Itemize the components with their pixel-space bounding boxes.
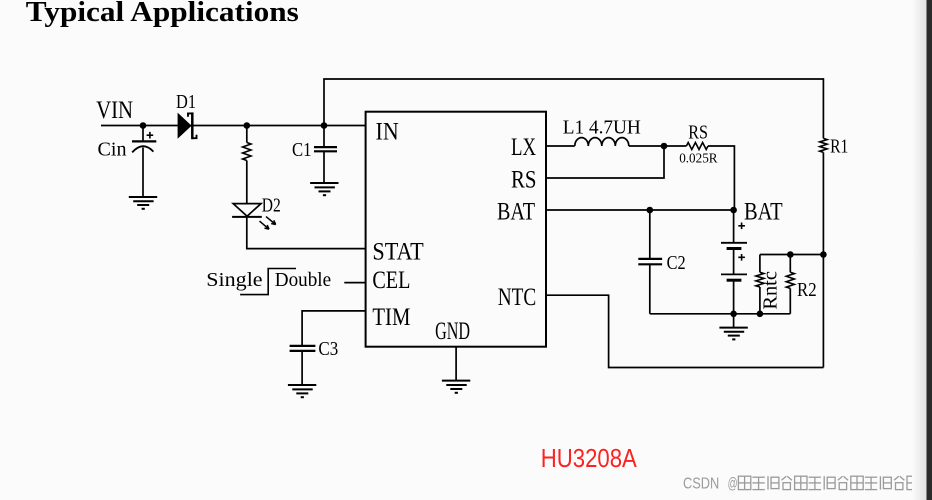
ground (C1) bbox=[310, 183, 338, 195]
junction LX sense bbox=[661, 143, 668, 150]
wire CEL stub bbox=[344, 282, 365, 284]
svg-text:@: @ bbox=[728, 476, 738, 493]
svg-text:CSDN: CSDN bbox=[683, 476, 719, 493]
wire LX out bbox=[546, 145, 575, 147]
capacitor C1 bbox=[314, 126, 337, 183]
svg-text:VIN: VIN bbox=[96, 97, 133, 124]
svg-text:Single: Single bbox=[206, 269, 262, 291]
junction battery tap bbox=[730, 207, 737, 214]
right edge dark strip bbox=[927, 0, 932, 500]
svg-text:TIM: TIM bbox=[372, 304, 410, 331]
ground (GND pin) bbox=[442, 381, 470, 393]
svg-text:C2: C2 bbox=[667, 252, 686, 274]
svg-text:LX: LX bbox=[511, 134, 536, 161]
junction C1 tap bbox=[321, 122, 328, 129]
svg-text:CEL: CEL bbox=[372, 267, 410, 294]
wire battery ground stem bbox=[733, 314, 735, 328]
junction Rntc bottom bbox=[757, 311, 764, 318]
wire D2 branch upper bbox=[246, 126, 248, 143]
svg-text:Rntc: Rntc bbox=[760, 271, 782, 310]
junction right rail bbox=[820, 251, 827, 258]
wire Rntc/R2 top rail bbox=[760, 254, 824, 256]
diode D1 (schottky) bbox=[178, 112, 197, 139]
resistor Rntc bbox=[756, 255, 764, 314]
resistor RS bbox=[686, 143, 708, 150]
battery BT1 bbox=[721, 210, 747, 314]
svg-text:IN: IN bbox=[376, 119, 399, 146]
svg-text:0.025R: 0.025R bbox=[679, 151, 717, 166]
wire BAT rail bbox=[546, 209, 734, 211]
ground (battery) bbox=[719, 328, 747, 340]
svg-text:RS: RS bbox=[511, 167, 537, 194]
svg-text:C3: C3 bbox=[318, 338, 338, 360]
svg-text:Cin: Cin bbox=[98, 139, 127, 161]
svg-text:D2: D2 bbox=[262, 194, 281, 216]
svg-text:D1: D1 bbox=[176, 91, 196, 113]
svg-text:HU3208A: HU3208A bbox=[541, 443, 638, 473]
junction battery bottom bbox=[730, 311, 737, 318]
capacitor Cin bbox=[132, 126, 156, 197]
svg-text:Typical Applications: Typical Applications bbox=[26, 0, 299, 28]
svg-text:R2: R2 bbox=[797, 279, 817, 301]
watermark company glyphs bbox=[738, 476, 919, 489]
svg-text:NTC: NTC bbox=[498, 284, 537, 311]
wire right vertical bbox=[822, 152, 824, 367]
ground (C3) bbox=[288, 385, 316, 397]
wire TIM trace bbox=[302, 311, 366, 346]
wire resistor to LED bbox=[246, 161, 248, 204]
wire RS feedback bbox=[546, 146, 664, 178]
wire LED to STAT bbox=[247, 217, 366, 249]
wire RS to BAT rail bbox=[708, 146, 734, 210]
wire GND stem bbox=[455, 347, 457, 381]
svg-text:RS: RS bbox=[688, 122, 708, 144]
ground (Cin) bbox=[129, 197, 157, 209]
svg-text:BAT: BAT bbox=[744, 199, 783, 226]
svg-text:Double: Double bbox=[275, 269, 331, 291]
svg-text:STAT: STAT bbox=[372, 238, 423, 265]
capacitor C2 bbox=[638, 210, 662, 314]
resistor R1 bbox=[820, 138, 827, 152]
inductor L1 bbox=[575, 138, 629, 146]
op-amp U1 HU3208A IC body bbox=[366, 112, 546, 347]
wire NTC trace bbox=[546, 295, 823, 367]
svg-text:GND: GND bbox=[435, 318, 470, 345]
junction C2 tap bbox=[647, 207, 654, 214]
capacitor C3 bbox=[290, 346, 316, 385]
svg-text:BAT: BAT bbox=[497, 198, 535, 225]
wire L1 to RS bbox=[629, 145, 687, 147]
junction R2 top bbox=[787, 251, 794, 258]
svg-text:L1 4.7UH: L1 4.7UH bbox=[563, 117, 641, 139]
resistor (LED series) bbox=[243, 143, 251, 161]
junction Cin tap bbox=[140, 122, 147, 129]
switch Single/Double select bbox=[240, 269, 296, 295]
wire C1 node up to top rail bbox=[324, 79, 823, 138]
wire bottom rail bbox=[650, 313, 791, 315]
wire main input bbox=[101, 125, 366, 127]
resistor R2 bbox=[786, 255, 794, 314]
LED D2 bbox=[232, 204, 276, 230]
svg-text:C1: C1 bbox=[292, 139, 312, 161]
junction D2 branch bbox=[244, 122, 251, 129]
svg-text:R1: R1 bbox=[830, 135, 848, 157]
